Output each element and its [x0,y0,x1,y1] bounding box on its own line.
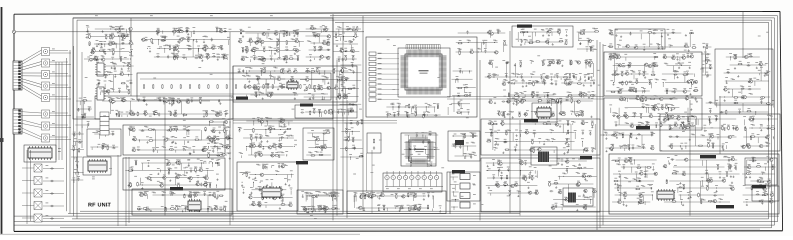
capacitor C73 [143,98,145,102]
value label [97,70,100,73]
wire [312,133,314,137]
value label [171,98,174,101]
wire [73,141,82,143]
wire [72,133,84,135]
ground [112,62,114,64]
value label [87,56,90,59]
wire [252,189,287,191]
resistor R95 [172,129,177,130]
node [269,94,272,97]
value label [392,102,395,105]
node [257,204,260,207]
node [77,171,80,174]
wire vertical trunk 7 [342,22,344,211]
resistor R109 [195,167,196,172]
value label [209,160,212,163]
node [187,47,190,50]
node [273,196,276,199]
value label [207,53,210,56]
node [256,40,259,43]
value label [163,96,166,99]
node [245,70,248,73]
value label [423,111,426,114]
value label [129,125,132,128]
value label [429,130,432,133]
wire [249,42,251,46]
wire [139,184,207,186]
transistor Q77 [218,112,222,115]
node [241,49,244,52]
value label [313,84,316,87]
wire [115,113,117,116]
value label [217,152,220,155]
wire vertical trunk 17 [742,12,744,58]
resistor R112 [178,184,179,189]
value label [255,91,258,94]
wire [112,75,114,92]
node [352,50,355,53]
wire [257,33,259,39]
transistor Q118 [257,203,261,206]
value label [206,52,209,55]
value label [350,108,353,111]
wire [154,56,218,58]
transistor Q2 [110,34,114,37]
resistor R10 [89,34,90,39]
capacitor C72 [337,110,339,114]
wire [188,48,190,50]
capacitor C1 [398,105,400,109]
value label [163,174,166,177]
resistor R31 [169,46,170,51]
capacitor C132 [258,203,260,207]
wire [247,41,304,43]
value label [156,146,159,149]
wire [50,64,72,66]
ground [242,192,244,194]
capacitor C107 [216,138,220,140]
value label [312,94,315,97]
wire [323,97,325,100]
wire [73,181,75,183]
node [189,176,192,179]
node [288,32,291,35]
node [122,35,125,38]
value label [95,131,98,134]
value label [74,137,77,140]
value label [405,104,408,107]
value label [129,167,132,170]
node [349,87,352,90]
node [266,166,269,169]
node [167,100,170,103]
wire [96,74,133,76]
value label [110,26,113,29]
wire [308,147,332,149]
section box xtal het [532,103,557,122]
value label [245,66,248,69]
value label [224,110,227,113]
transistor Q128 [221,153,225,156]
node [183,113,186,116]
value label [172,135,175,138]
ground [318,72,320,74]
transistor Q48 [326,42,330,45]
wire [71,179,83,181]
value label [409,160,412,163]
transistor Q8 [91,49,95,52]
capacitor C4 [397,112,399,116]
wire vertical trunk 10 [479,60,481,220]
wire [306,154,331,156]
ground [117,31,119,33]
resistor R96 [173,128,178,129]
wire [162,40,164,42]
transistor Q62 [305,78,309,81]
resistor R27 [151,38,152,43]
section box Q row [383,173,442,192]
capacitor C29 [188,48,192,50]
wire [185,57,187,60]
resistor R137 [319,147,324,148]
value label [320,151,323,154]
wire [87,30,89,35]
capacitor C108 [137,149,141,151]
capacitor C12 [414,147,416,151]
ground [127,67,129,69]
capacitor C76 [171,100,175,102]
node [106,133,109,136]
node [184,208,187,211]
node [205,113,208,116]
node [429,134,432,137]
value label [155,109,158,112]
node [426,114,429,117]
value label [246,46,249,49]
transistor Q84 [131,128,135,131]
value label [112,26,115,29]
value label [211,109,214,112]
value label [318,33,321,36]
value label [321,92,324,95]
transistor Q81 [339,49,343,52]
value label [318,109,321,112]
transistor Q100 [159,184,163,187]
wire bus B4 [72,218,769,220]
node [159,100,162,103]
capacitor C95 [342,58,344,62]
value label [161,36,164,39]
value label [350,107,353,110]
value label [120,70,123,73]
value label [172,97,175,100]
wire [434,106,436,112]
value label [433,146,436,149]
wire [97,83,99,87]
value label [240,28,243,31]
value label [108,79,111,82]
wire [101,113,103,117]
wire [336,28,361,30]
value label [52,48,55,51]
wire [311,70,348,72]
section box PLL loop [237,162,298,211]
transistor Q30 [248,39,252,42]
node [172,100,175,103]
wire [102,100,210,102]
wire [270,71,272,79]
node [281,166,284,169]
wire J2 pin 3 [21,62,42,68]
capacitor C127 [219,209,223,211]
ground [277,88,279,90]
wire [98,134,100,139]
resistor R93 [148,129,153,130]
node [261,196,264,199]
border left [13,14,15,231]
value label [344,54,347,57]
wire [73,171,83,173]
resistor R48 [283,69,284,74]
transistor Q29 [238,40,242,43]
transistor Q45 [316,34,320,37]
wire [314,140,316,146]
ground [294,97,296,99]
node [187,100,190,103]
ground [274,53,276,55]
value label [108,96,111,99]
wire bus B3 [14,215,779,217]
wire [43,218,64,220]
value label [216,135,219,138]
transistor Q107 [212,193,216,196]
node [259,181,262,184]
capacitor C39 [282,33,286,35]
wire [310,42,326,44]
wire [141,162,207,164]
transistor Q12 [156,29,160,32]
wire [404,141,436,143]
value label [218,158,221,161]
wire [139,129,201,131]
value label [163,191,166,194]
node [208,162,211,165]
node [215,184,218,187]
node [162,38,165,41]
value label [96,55,99,58]
ground [178,41,180,43]
wire J3 pin 2 [19,114,42,116]
wire [22,192,34,194]
value label [96,84,99,87]
buffer block Q30 [42,48,50,56]
value label [171,204,174,207]
node [275,32,278,35]
value label [132,98,135,101]
resistor R140 [319,154,324,155]
wire [95,51,130,53]
wire [129,29,131,44]
resistor R133 [262,195,263,200]
wire [416,107,418,115]
capacitor C10 [428,140,430,144]
value label [157,167,160,170]
value label [122,47,125,50]
value label [314,32,317,35]
value label [216,159,219,162]
value label [258,55,261,58]
transistor Q114 [248,196,252,199]
node [258,58,261,61]
resistor R28 [161,40,166,41]
value label [436,102,439,105]
value label [409,145,412,148]
value label [266,178,269,181]
node [78,140,81,143]
transistor Q83 [128,127,132,130]
capacitor C86 [216,113,218,117]
wire [186,130,188,135]
node [392,106,395,109]
node [196,184,199,187]
capacitor C5 [424,113,426,117]
section box PA [609,154,779,214]
transistor Q46 [327,35,331,38]
IC U13 (mixer) [287,82,298,88]
value label [101,144,104,147]
wire [244,129,291,131]
ground [149,50,151,52]
node [414,106,417,109]
wire [84,58,129,60]
node [73,133,76,136]
transistor Q39 [241,57,245,60]
node [128,28,131,31]
value label [278,162,281,165]
value label [138,191,141,194]
resistor array R40-R59 [143,84,144,89]
value label [283,30,286,33]
capacitor C36 [212,55,216,57]
value label [393,111,396,114]
value label [135,159,138,162]
section box VCO lower [123,158,225,190]
section box ANT switch [660,114,780,151]
capacitor C40 [257,39,259,43]
transistor Q88 [132,148,136,151]
wire [77,149,79,172]
node [178,30,181,33]
value label [174,111,177,114]
value label [73,131,76,134]
value label [339,26,342,29]
resistor R76 [154,111,155,116]
value label [133,135,136,138]
capacitor C28 [211,38,213,42]
value label [180,26,183,29]
wire [223,121,225,126]
value label [256,163,259,166]
value label [209,191,212,194]
transistor Q65 [326,86,330,89]
value label [127,33,130,36]
transistor Q66 [334,86,338,89]
resistor R60 [348,88,353,89]
value label [210,117,213,120]
value label [184,145,187,148]
value label [46,164,49,167]
node [130,113,133,116]
wire [411,157,413,163]
wire [50,84,69,86]
value label [287,83,290,86]
value label [103,48,106,51]
ground [172,141,174,143]
node [218,100,221,103]
value label [205,53,208,56]
value label [244,56,247,59]
wire [43,180,64,182]
value label [199,53,202,56]
ground [294,53,296,55]
node [309,56,312,59]
value label [351,109,354,112]
node [349,43,352,46]
resistor R64 [314,109,315,114]
value label [186,36,189,39]
node [125,35,128,38]
value label [98,79,101,82]
value label [217,147,220,150]
node [263,58,266,61]
value label [427,103,430,106]
wire [119,37,121,60]
resistor R61 [339,95,340,100]
resistor R70 [122,100,127,101]
value label [146,206,149,209]
value label [174,146,177,149]
wire [212,162,214,167]
resistor R79 [182,114,187,115]
node [352,28,355,31]
capacitor C122 [161,194,165,196]
node [407,155,410,158]
value label [173,125,176,128]
value label [179,174,182,177]
transistor Q55 [290,78,294,81]
node [170,194,173,197]
node [224,30,227,33]
node [204,176,207,179]
resistor R128 [224,207,225,212]
node [321,146,324,149]
ground [193,151,195,153]
capacitor C92 [346,28,350,30]
wire [248,78,285,80]
resistor R23 [176,31,181,32]
value label [52,122,55,125]
value label [203,160,206,163]
resistor R108 [168,169,169,174]
node [95,58,98,61]
value label [77,175,80,178]
resistor R34 [224,55,225,60]
node [338,96,341,99]
wire [386,115,388,118]
transistor Q23 [198,55,202,58]
transistor Q17 [174,47,178,50]
wire [392,106,394,110]
